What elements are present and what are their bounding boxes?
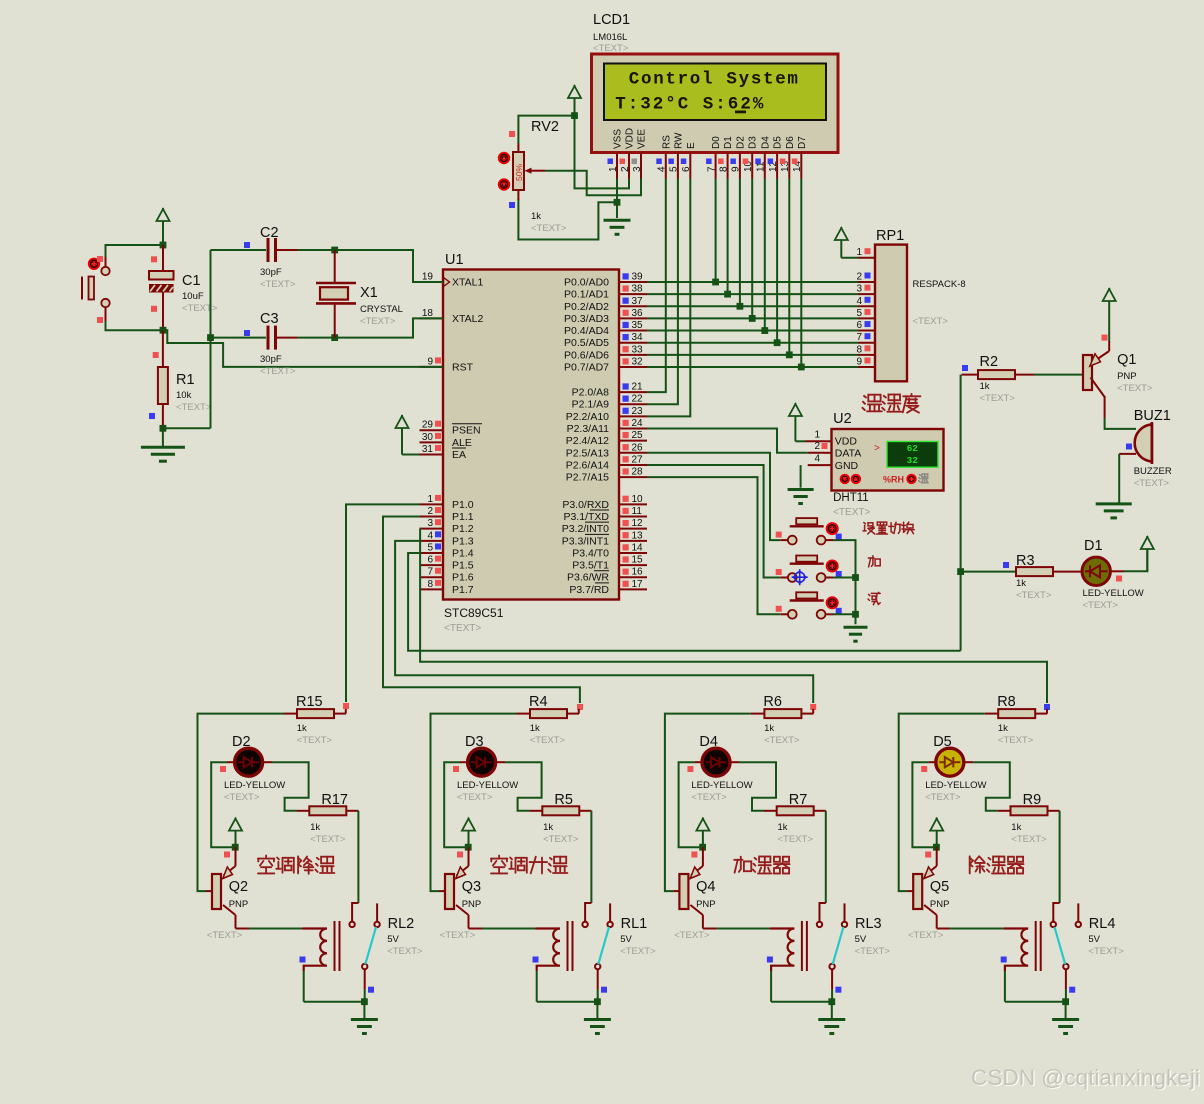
relay RL2 left pin (352, 903, 358, 922)
wire C2 right pin (277, 249, 298, 251)
U1 XTAL1 arrow marker (444, 278, 450, 287)
wire R1 top pin (162, 330, 164, 367)
svg-text:38: 38 (632, 284, 644, 295)
relay RL4 coil (1004, 929, 1028, 972)
svg-text:9: 9 (731, 166, 742, 172)
marker blue RV2 bottom (509, 202, 515, 208)
marker blue R1 bottom (149, 413, 155, 419)
svg-text:D4: D4 (760, 136, 771, 149)
capacitor C3 (268, 326, 276, 350)
junction RL1 gnd (594, 998, 601, 1005)
label she-zhi-qie-huan (setting switch) (863, 522, 914, 534)
svg-text:LED-YELLOW: LED-YELLOW (457, 780, 518, 791)
wire D5 to R9 (973, 762, 1010, 811)
svg-text:<TEXT>: <TEXT> (925, 792, 961, 803)
marker red LED (220, 766, 226, 772)
svg-text:P1.7: P1.7 (452, 584, 474, 596)
svg-text:RL1: RL1 (621, 916, 648, 932)
wire LCD D4 vertical (764, 179, 766, 331)
svg-text:C1: C1 (182, 273, 201, 289)
wire C1 bottom pin (162, 292, 164, 331)
capacitor C1 (149, 271, 174, 293)
svg-text:RESPACK-8: RESPACK-8 (913, 279, 966, 290)
wire buttons ground rail (833, 540, 856, 624)
junction R1 bottom (160, 425, 167, 432)
marker blue coil (767, 957, 773, 963)
marker red DATA (822, 443, 828, 449)
junction Q4 emitter (699, 844, 706, 851)
wire gnd to C2 left (211, 249, 267, 251)
junction Q2 emitter (232, 844, 239, 851)
label wen-shi-du (temperature humidity) (862, 394, 920, 413)
label jia (increase) (868, 556, 880, 567)
resistor R6 body (764, 709, 801, 718)
svg-text:>: > (874, 443, 880, 454)
svg-text:P0.7/AD7: P0.7/AD7 (564, 361, 609, 373)
reset push button (82, 267, 110, 307)
wire R7 right pin (814, 810, 826, 812)
marker red R4 net (577, 704, 583, 710)
svg-text:BUZZER: BUZZER (1134, 466, 1172, 477)
svg-text:RL3: RL3 (855, 916, 882, 932)
wire R7 to relay switch (825, 811, 827, 903)
Q1 emitter (1090, 341, 1109, 366)
power +5V Q4 (696, 818, 709, 848)
svg-text:P1.3: P1.3 (452, 535, 474, 547)
power +5V D1 (1141, 536, 1154, 571)
wire R3 right pin (1053, 571, 1081, 573)
LCD1 LM016L display module (592, 54, 839, 153)
junction D6/P0.6 (786, 351, 793, 358)
wire gnd rail to R1 (163, 427, 211, 429)
wire RV2 bottom to ground (518, 199, 615, 240)
marker blue switch (1069, 987, 1075, 993)
power +5V Q5 (930, 818, 943, 848)
push button SET (she-zhi-qie-huan) (780, 518, 833, 544)
svg-text:PNP: PNP (229, 899, 249, 910)
power +5V EA (396, 415, 409, 455)
relay RL1 left pin (585, 903, 591, 922)
svg-text:P3.4/T0: P3.4/T0 (572, 547, 609, 559)
svg-text:<TEXT>: <TEXT> (833, 507, 870, 518)
DHT11 display (887, 442, 938, 468)
svg-text:VDD: VDD (835, 436, 858, 448)
svg-text:P0.5/AD5: P0.5/AD5 (564, 337, 609, 349)
svg-text:4: 4 (657, 166, 668, 172)
svg-text:P3.6/WR: P3.6/WR (567, 572, 609, 584)
wire R1 bottom pin (162, 404, 164, 428)
wire gnd to C3 left (211, 337, 267, 339)
wire R17 left pin (297, 810, 310, 812)
svg-text:P3.7/RD: P3.7/RD (569, 584, 609, 596)
svg-text:Q1: Q1 (1117, 352, 1136, 368)
marker red R1 top (153, 352, 159, 358)
wire RST net (163, 330, 443, 367)
svg-text:<TEXT>: <TEXT> (297, 735, 333, 746)
marker blue switch (835, 987, 841, 993)
DHT up button (852, 475, 860, 483)
wire P0.5 to RP1 (647, 342, 858, 344)
wire P0.4 to RP1 (647, 330, 858, 332)
svg-text:C2: C2 (260, 225, 279, 241)
wire RL4 gnd stem (1065, 1002, 1067, 1020)
svg-text:R2: R2 (980, 354, 999, 370)
label jian (decrease) (868, 592, 880, 604)
LED D4 (702, 748, 730, 776)
wire R4 to Q3 base (431, 714, 517, 892)
svg-text:1: 1 (814, 430, 820, 441)
svg-text:P3.3/INT1: P3.3/INT1 (562, 535, 609, 547)
svg-text:26: 26 (632, 442, 644, 453)
LCD pin stubs (616, 153, 618, 179)
relay RL2 switch (349, 903, 379, 989)
svg-text:P2.1/A9: P2.1/A9 (572, 399, 610, 411)
svg-text:P1.6: P1.6 (452, 572, 474, 584)
svg-text:4: 4 (814, 453, 820, 464)
junction gnd/C3 (207, 334, 214, 341)
svg-text:<TEXT>: <TEXT> (387, 946, 423, 957)
svg-text:1k: 1k (310, 822, 320, 833)
wire R15 right pin (334, 713, 346, 715)
svg-text:C3: C3 (260, 311, 279, 327)
svg-text:5V: 5V (855, 934, 867, 945)
marker red C1 bottom (151, 306, 157, 312)
marker red (776, 606, 782, 612)
wire P1.0 to R15 (346, 504, 420, 702)
svg-text:<TEXT>: <TEXT> (998, 735, 1034, 746)
wire RL3 coil return (771, 1001, 832, 1003)
svg-text:22: 22 (632, 394, 644, 405)
wire P2.1 to LCD (647, 179, 678, 405)
svg-text:XTAL2: XTAL2 (452, 313, 483, 325)
svg-text:Control System: Control System (629, 70, 800, 90)
wire R2 to Q1 base (1034, 374, 1083, 376)
svg-text:<TEXT>: <TEXT> (530, 735, 566, 746)
junction D4/P0.4 (761, 327, 768, 334)
wire P0.0 to RP1 (647, 281, 858, 283)
wire R2 left pin (962, 374, 979, 376)
wire button3 right (833, 613, 856, 615)
wire D3 to R5 (505, 762, 542, 811)
Q4 collector line (690, 905, 716, 929)
RV2 down button (499, 179, 509, 189)
svg-text:<TEXT>: <TEXT> (224, 792, 260, 803)
svg-text:35: 35 (632, 320, 644, 331)
svg-text:R1: R1 (176, 372, 195, 388)
svg-text:1: 1 (427, 494, 433, 505)
svg-text:LCD1: LCD1 (593, 12, 630, 28)
wire R4 left pin (517, 713, 531, 715)
svg-text:PNP: PNP (462, 899, 482, 910)
marker blue C3 (244, 330, 250, 336)
svg-text:LED-YELLOW: LED-YELLOW (691, 780, 752, 791)
wire RL2 gnd stem (363, 1002, 365, 1020)
relay RL1 switch (582, 903, 612, 989)
svg-text:<TEXT>: <TEXT> (182, 303, 218, 314)
wire C2 to XTAL1 node (298, 249, 335, 251)
svg-text:50%: 50% (514, 164, 524, 181)
relay RL4 left pin (1053, 903, 1059, 922)
svg-text:P2.6/A14: P2.6/A14 (566, 459, 609, 471)
wire RL3 switch to gnd (831, 989, 833, 1001)
svg-text:P0.3/AD3: P0.3/AD3 (564, 313, 609, 325)
wire D5 left pin (928, 761, 935, 763)
wire R4 right pin (567, 713, 579, 715)
svg-text:D5: D5 (933, 734, 952, 750)
svg-text:<TEXT>: <TEXT> (1117, 383, 1153, 394)
wire LCD D1 vertical (727, 179, 729, 295)
junction D5/P0.5 (774, 339, 781, 346)
svg-text:27: 27 (632, 454, 644, 465)
wire R2 right pin (1015, 374, 1034, 376)
relay RL4 switch (1051, 903, 1081, 989)
wire R8 to Q5 base (899, 714, 985, 892)
marker red (97, 256, 103, 262)
svg-text:RP1: RP1 (876, 228, 904, 244)
relay RL3 left pin (820, 903, 826, 922)
svg-text:Q5: Q5 (930, 879, 949, 895)
wire buzzer to ground (1118, 454, 1120, 504)
svg-text:P0.0/AD0: P0.0/AD0 (564, 277, 609, 289)
wire RL2 coil return (304, 1001, 365, 1003)
relay RL3 core (802, 921, 807, 971)
button actuator SET (she-zhi-qie-huan) (827, 523, 838, 534)
wire D1 right pin (1110, 570, 1124, 572)
relay RL2 coil (303, 929, 327, 972)
junction RL2 gnd (361, 998, 368, 1005)
wire R4 right pin tip (578, 709, 580, 714)
svg-text:STC89C51: STC89C51 (444, 606, 504, 620)
marker red R6 net (810, 704, 816, 710)
marker blue switch (368, 987, 374, 993)
marker red LED (687, 766, 693, 772)
marker red (776, 532, 782, 538)
wire C3 to XTAL2 node (298, 337, 335, 339)
marker red D1 (1116, 576, 1122, 582)
svg-text:<TEXT>: <TEXT> (778, 834, 814, 845)
svg-text:Q2: Q2 (229, 879, 248, 895)
svg-text:R7: R7 (789, 792, 808, 808)
svg-text:P2.4/A12: P2.4/A12 (566, 435, 609, 447)
wire LCD D6 vertical (788, 179, 790, 355)
svg-text:10: 10 (632, 494, 644, 505)
svg-text:2: 2 (427, 506, 433, 517)
Q4 emitter line (690, 847, 703, 878)
svg-text:D4: D4 (699, 734, 718, 750)
wire D4 anode to +5V rail (679, 762, 700, 847)
wire R8 right pin tip (1046, 709, 1048, 714)
marker red C1 top (151, 256, 157, 262)
svg-text:P0.4/AD4: P0.4/AD4 (564, 325, 609, 337)
svg-text:P0.6/AD6: P0.6/AD6 (564, 349, 609, 361)
svg-text:<TEXT>: <TEXT> (440, 930, 476, 941)
svg-text:D6: D6 (785, 136, 796, 149)
op-amp U1 STC89C51 microcontroller body (443, 270, 619, 600)
marker blue switch (601, 987, 607, 993)
svg-text:RW: RW (673, 132, 684, 149)
svg-text:RL2: RL2 (388, 916, 415, 932)
wire R9 left pin (998, 810, 1011, 812)
wire P2.3 to DHT11 DATA (647, 429, 808, 453)
svg-text:30pF: 30pF (260, 354, 282, 365)
junction R3 (957, 568, 964, 575)
svg-text:%RH: %RH (883, 475, 904, 485)
wire gnd vertical C2/C3 (210, 250, 212, 428)
svg-text:32: 32 (907, 455, 919, 466)
wire RL4 switch to gnd (1065, 989, 1067, 1001)
svg-text:39: 39 (632, 272, 644, 283)
wire D4 to R7 (739, 762, 776, 811)
resistor R2 body (978, 370, 1015, 379)
relay RL2 core (335, 921, 340, 971)
marker blue coil (533, 957, 539, 963)
svg-text:4: 4 (856, 296, 862, 307)
resistor R7 body (777, 806, 814, 815)
svg-text:CRYSTAL: CRYSTAL (360, 304, 403, 315)
svg-text:8: 8 (718, 166, 729, 172)
wire Q1 collector to buzzer (1105, 418, 1136, 429)
wire D1 to power (1124, 550, 1147, 571)
svg-text:RL4: RL4 (1089, 916, 1116, 932)
wire P2.6 to button2 (647, 465, 780, 578)
wire reset button bottom pin (105, 307, 107, 321)
svg-text:P3.5/T1: P3.5/T1 (572, 560, 609, 572)
svg-text:D2: D2 (735, 136, 746, 149)
power +5V Q2 (229, 818, 242, 848)
svg-text:<TEXT>: <TEXT> (531, 223, 567, 234)
junction RL4 gnd (1062, 998, 1069, 1005)
svg-text:<TEXT>: <TEXT> (457, 792, 493, 803)
label 除湿器 (970, 856, 1024, 873)
svg-text:3: 3 (856, 284, 862, 295)
wire R9 to relay switch (1059, 811, 1061, 903)
svg-text:DATA: DATA (835, 448, 861, 460)
power +5V Q1 (1103, 288, 1116, 341)
wire P1.1 to R4 (383, 517, 580, 703)
U1 right pin numbers (623, 273, 629, 279)
svg-text:1: 1 (856, 247, 862, 258)
svg-text:R6: R6 (763, 694, 782, 710)
svg-text:<TEXT>: <TEXT> (764, 735, 800, 746)
svg-text:<TEXT>: <TEXT> (620, 946, 656, 957)
svg-text:R15: R15 (296, 694, 323, 710)
svg-text:7: 7 (856, 332, 862, 343)
svg-text:12: 12 (632, 518, 644, 529)
svg-text:1k: 1k (297, 723, 307, 734)
svg-text:5V: 5V (387, 934, 399, 945)
potentiometer RV2 (513, 144, 545, 201)
wire R15 to Q2 base (198, 714, 284, 892)
svg-text:LED-YELLOW: LED-YELLOW (925, 780, 986, 791)
ground BUZ1 (1096, 504, 1132, 518)
svg-text:2: 2 (814, 441, 820, 452)
svg-text:62: 62 (907, 443, 919, 454)
wire R6 left pin (751, 713, 765, 715)
wire VEE to RV2 wiper (545, 171, 641, 196)
svg-text:<TEXT>: <TEXT> (260, 366, 296, 377)
svg-text:30: 30 (422, 432, 434, 443)
wire R8 left pin (985, 713, 999, 715)
svg-text:D3: D3 (748, 136, 759, 149)
svg-text:2: 2 (620, 166, 631, 172)
wire P0.6 to RP1 (647, 354, 858, 356)
wire D2 left pin (227, 761, 234, 763)
svg-text:1k: 1k (998, 723, 1008, 734)
svg-text:9: 9 (856, 356, 862, 367)
wire D5 anode to +5V rail (912, 762, 933, 847)
transistor Q1 (PNP) (1083, 355, 1092, 390)
svg-text:LED-YELLOW: LED-YELLOW (1083, 588, 1144, 599)
Q5 emitter line (924, 847, 937, 878)
junction button3 gnd (852, 611, 859, 618)
wire P2.2 to LCD (647, 179, 690, 417)
svg-text:3: 3 (427, 518, 433, 529)
svg-text:P1.1: P1.1 (452, 511, 474, 523)
wire power to VDD (795, 440, 805, 442)
marker red emitter (457, 852, 463, 858)
resistor R5 body (542, 806, 579, 815)
svg-text:5V: 5V (1088, 934, 1100, 945)
marker blue R8 net (1044, 704, 1050, 710)
svg-text:U2: U2 (833, 411, 852, 427)
marker blue coil (1001, 957, 1007, 963)
svg-text:1k: 1k (1011, 822, 1021, 833)
marker blue (836, 608, 842, 614)
svg-text:<TEXT>: <TEXT> (1011, 834, 1047, 845)
svg-text:U1: U1 (445, 252, 464, 268)
svg-text:13: 13 (632, 530, 644, 541)
svg-text:RST: RST (452, 361, 474, 373)
svg-text:R3: R3 (1016, 553, 1035, 569)
ground DHT (788, 490, 814, 504)
svg-text:<TEXT>: <TEXT> (207, 930, 243, 941)
U1 left pin stubs (420, 281, 444, 283)
svg-text:10uF: 10uF (182, 291, 204, 302)
svg-text:D5: D5 (773, 136, 784, 149)
resistor R8 body (998, 709, 1035, 718)
svg-text:1k: 1k (980, 381, 990, 392)
power +5V RP1 (835, 227, 848, 258)
relay RL4 core (1036, 921, 1041, 971)
svg-text:E: E (686, 142, 697, 149)
label shi gray (919, 474, 929, 483)
svg-text:Q3: Q3 (462, 879, 481, 895)
wire power to RP1 pin1 (841, 257, 858, 259)
svg-text:21: 21 (632, 382, 644, 393)
wire P2.7 to button3 (647, 477, 780, 614)
junction XTAL1 node (331, 247, 338, 254)
svg-text:P0.2/AD2: P0.2/AD2 (564, 301, 609, 313)
wire R6 right pin tip (812, 709, 814, 714)
svg-text:D2: D2 (232, 734, 251, 750)
DHT mode button (907, 475, 915, 483)
svg-text:16: 16 (632, 567, 644, 578)
svg-text:1k: 1k (778, 822, 788, 833)
LED D5 (936, 748, 964, 776)
power +5V above RV2 (568, 85, 581, 116)
marker blue BUZ1 (1126, 444, 1132, 450)
capacitor C2 (268, 238, 276, 262)
wire LCD D3 vertical (751, 179, 753, 319)
svg-text:P0.1/AD1: P0.1/AD1 (564, 289, 609, 301)
svg-text:<TEXT>: <TEXT> (980, 393, 1016, 404)
svg-text:PNP: PNP (696, 899, 716, 910)
wire Q3 base pin (439, 890, 445, 892)
svg-text:EA: EA (452, 449, 466, 461)
resistor R4 body (530, 709, 567, 718)
wire P2.5 to button1 (647, 453, 780, 540)
wire R1 to ground (162, 428, 164, 447)
